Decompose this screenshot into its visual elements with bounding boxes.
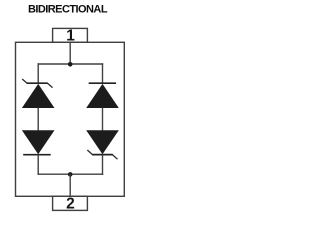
wire: right branch upper	[102, 63, 104, 83]
junction dot top	[68, 62, 73, 67]
wire: bottom horizontal bus	[38, 173, 104, 175]
wire: left branch middle	[37, 108, 39, 131]
svg-text:2: 2	[66, 196, 75, 213]
wire: right branch middle	[102, 108, 104, 131]
wire: top horizontal bus	[38, 63, 104, 65]
package outline rectangle	[16, 42, 125, 196]
junction dot bottom	[68, 172, 73, 177]
wire: pin 2 stub	[69, 174, 71, 196]
diode D3 top-right (plain cathode bar)	[86, 83, 119, 108]
TVS zener diode D4 bottom-right (cathode bar with wings, pointing down)	[86, 130, 119, 159]
svg-text:BIDIRECTIONAL: BIDIRECTIONAL	[28, 4, 108, 16]
wire: right branch lower	[102, 155, 104, 175]
diode D2 bottom-left (plain cathode bar, pointing down)	[22, 130, 55, 155]
wire: left branch lower	[37, 155, 39, 175]
wire: pin 1 stub	[69, 42, 71, 64]
pin 2 box	[53, 196, 88, 210]
TVS zener diode D1 top-left (cathode bar with wings)	[22, 79, 55, 108]
wire: left branch upper	[37, 63, 39, 83]
pin 1 box	[53, 28, 88, 42]
